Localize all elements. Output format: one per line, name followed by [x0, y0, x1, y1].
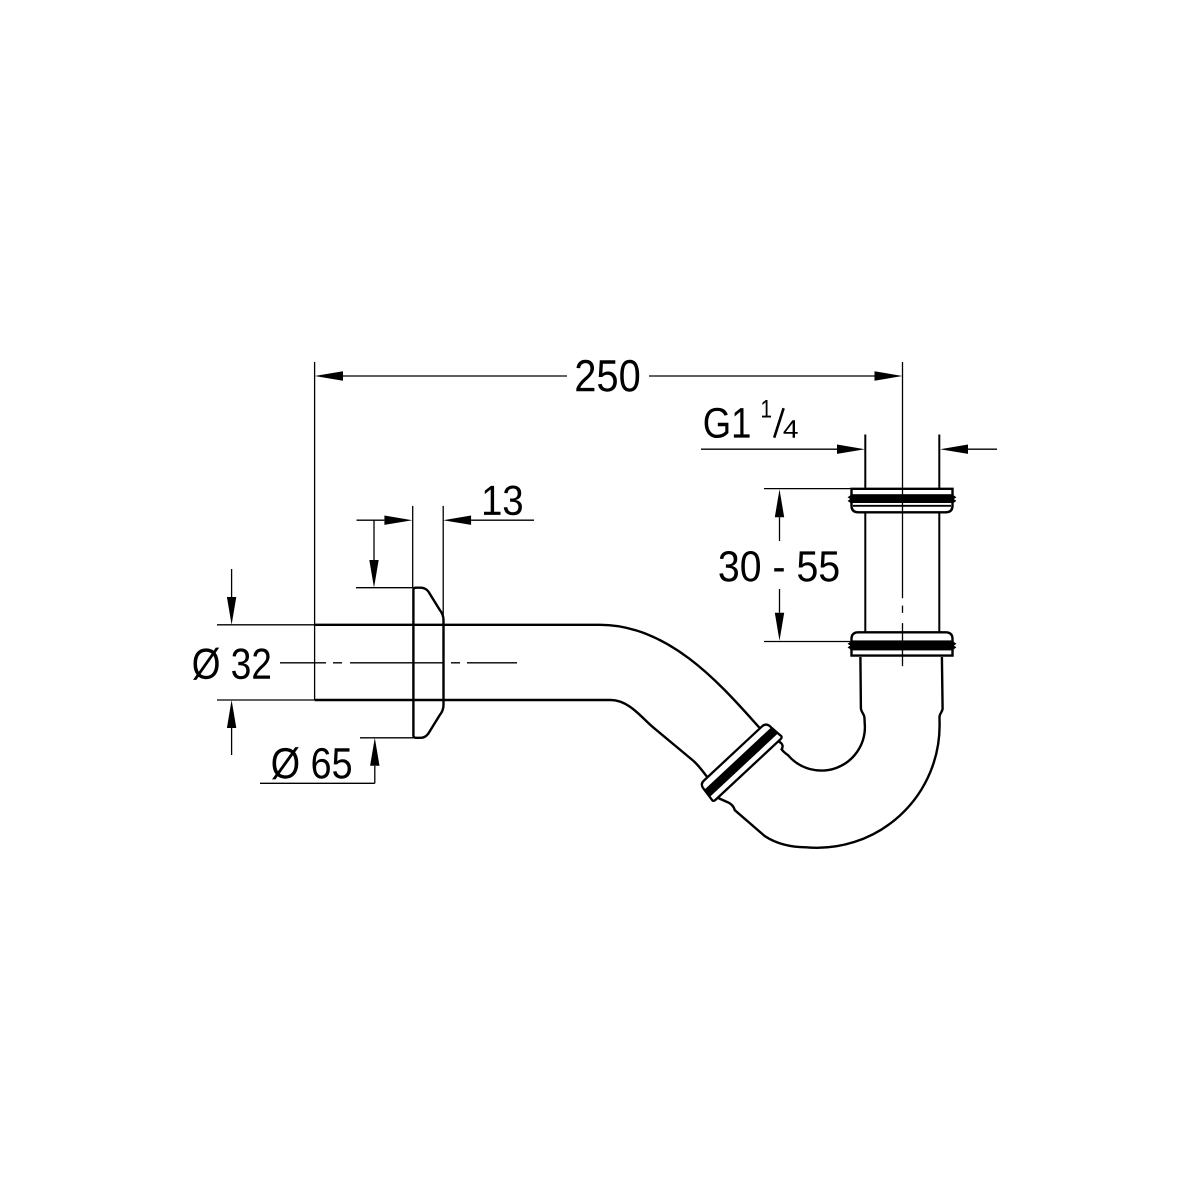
arrowhead pointing up at flange bottom	[370, 738, 379, 766]
arrowhead pointing right at pipe wall	[837, 445, 865, 454]
vertical pipe right wall between nuts	[938, 512, 940, 632]
trap inner wall: socket exit, inner bend arc, left wall up to lower nut	[778, 657, 865, 771]
extension line at flange face	[412, 506, 414, 588]
fraction denominator 4	[784, 420, 798, 438]
arrowhead pointing up	[227, 700, 236, 728]
upper nut body	[852, 489, 953, 513]
dimension line lower segment	[779, 589, 781, 613]
lower nut body	[852, 632, 953, 655]
value label 30 - 55	[719, 551, 838, 582]
inlet stub right wall above upper nut	[938, 435, 940, 489]
dimension line upper segment	[779, 517, 781, 541]
upper nut	[849, 489, 955, 513]
ring nut black seal band	[704, 727, 778, 797]
upper nut groove line	[853, 505, 951, 507]
upper leader line	[231, 569, 233, 597]
leader vertical line	[374, 766, 376, 784]
lower nut black seal band	[850, 640, 953, 650]
diagonal ring nut	[699, 721, 783, 801]
arrowhead pointing up	[775, 489, 784, 517]
arrowhead pointing right	[384, 516, 412, 525]
upper nut right thread ridges	[953, 496, 956, 503]
value label 250	[576, 360, 639, 392]
flange bottom reference line	[360, 737, 413, 739]
dimension 13	[356, 486, 534, 618]
leader tail right	[968, 448, 997, 450]
pipe top wall	[315, 625, 763, 732]
dimension diameter 65	[260, 738, 413, 784]
arrowhead pointing down at flange top	[369, 560, 378, 588]
extension line at pipe top wall	[217, 624, 315, 626]
horizontal centerline	[280, 662, 517, 664]
extension line left (pipe end)	[314, 362, 316, 700]
dimension diameter 32	[193, 569, 315, 755]
extension line right (pipe axis)	[902, 362, 904, 489]
arrowhead pointing left at pipe wall	[940, 445, 968, 454]
extension line at lower nut top	[764, 641, 852, 643]
dimension line left segment	[343, 375, 567, 377]
fraction numerator 1	[762, 400, 771, 418]
dimension 250	[315, 360, 903, 700]
value label 13	[484, 486, 522, 516]
leader underline	[260, 782, 375, 784]
extension line at pipe bottom wall	[217, 699, 315, 701]
value label diameter 32	[193, 648, 270, 680]
leader down line	[373, 520, 375, 560]
dimension 30 - 55	[719, 489, 851, 642]
label G1 1/4	[701, 400, 997, 454]
upper nut left thread ridges	[849, 496, 852, 503]
upper nut black seal band	[850, 494, 953, 503]
inlet stub left wall above upper nut	[864, 435, 866, 489]
lower nut	[849, 632, 955, 655]
flange top reference line	[356, 587, 413, 589]
extension line at flange cone	[442, 506, 444, 617]
lower nut right thread ridges	[953, 642, 956, 649]
lower leader line	[231, 728, 233, 755]
dimension tail left	[357, 519, 385, 521]
value label diameter 65	[272, 747, 351, 779]
vertical pipe left wall between nuts	[864, 512, 866, 632]
fraction slash	[774, 408, 783, 438]
vertical centerline	[902, 489, 904, 666]
pipe bottom wall	[315, 700, 710, 781]
extension line at upper nut top	[764, 488, 852, 490]
wall flange	[413, 588, 443, 738]
arrowhead pointing down	[775, 613, 784, 641]
arrowhead left	[315, 371, 343, 380]
ring nut body	[699, 721, 783, 801]
thread size text G1	[705, 408, 750, 438]
arrowhead pointing left	[443, 516, 471, 525]
dimension tail right	[471, 519, 534, 521]
arrowhead right	[875, 371, 903, 380]
lower nut left thread ridges	[849, 642, 852, 649]
trap outer wall: socket exit, outer bend arc, right wall up to lower nut	[713, 657, 942, 848]
dimension line right segment	[649, 375, 875, 377]
leader line left	[701, 448, 837, 450]
arrowhead pointing down	[227, 597, 236, 625]
